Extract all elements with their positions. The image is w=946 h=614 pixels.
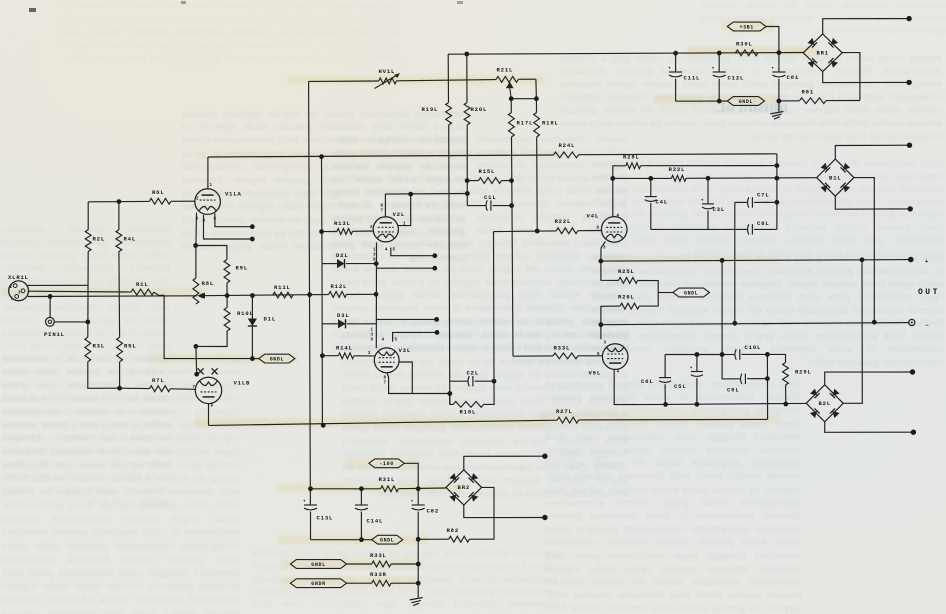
svg-text:R24L: R24L [559, 142, 576, 149]
wire GNDL stub mid [658, 292, 673, 294]
svg-text:V2L: V2L [393, 211, 405, 218]
resistor R26L [620, 303, 639, 309]
capacitor C11L [675, 53, 677, 72]
capacitor C5L [696, 355, 698, 372]
svg-text:+: + [771, 68, 774, 72]
svg-text:3: 3 [18, 292, 21, 296]
node cathode-R19L column [447, 391, 452, 396]
bridge rectifier B2L [806, 385, 843, 422]
terminal heater c1 [434, 317, 439, 322]
resistor R31L [381, 486, 399, 492]
diode D2L [337, 259, 345, 268]
wire R19L down long [449, 125, 450, 404]
node R24L-R32L [775, 176, 780, 181]
net label GNDL heater row [290, 560, 346, 569]
bridge rectifier BR1 [803, 34, 842, 72]
svg-text:GNDL: GNDL [270, 357, 284, 363]
svg-text:GNDR: GNDR [311, 581, 325, 587]
wire V4L grid line [494, 230, 557, 233]
capacitor C4L [650, 178, 652, 196]
resistor R18L bottom [450, 394, 453, 405]
svg-text:V4L: V4L [587, 213, 599, 220]
wire B2L column down [843, 260, 862, 404]
terminal B1L top [907, 143, 912, 148]
wire R9L-R10L [226, 283, 228, 296]
resistor R13L [322, 231, 337, 233]
wire V3L cathode line [387, 373, 450, 394]
terminal B1L bottom [908, 206, 913, 211]
node rail-C81 [777, 50, 782, 55]
svg-text:R18L: R18L [460, 409, 477, 416]
resistor R17L [510, 99, 512, 113]
svg-text:3: 3 [604, 342, 607, 346]
svg-text:V5L: V5L [589, 370, 601, 377]
terminal OUT plus [908, 257, 914, 263]
svg-text:C5L: C5L [674, 383, 686, 390]
wire BR2 bottom to terminal [464, 505, 545, 518]
svg-text:B2L: B2L [818, 400, 830, 407]
wire R8L down to V1LB pin [195, 346, 198, 374]
wire V4L cathode to plus line [601, 242, 605, 262]
node C5L bottom [695, 402, 700, 407]
wire R32L line [613, 177, 672, 179]
wire cap bottom line [666, 403, 807, 404]
wire V2L top pin to plate line [385, 194, 467, 218]
resistor R82 [449, 536, 470, 542]
svg-text:R4L: R4L [124, 236, 136, 243]
wire V1LA plate bus with R24L [208, 155, 554, 157]
svg-text:R26L: R26L [618, 294, 635, 301]
resistor R18L [535, 99, 537, 113]
svg-text:R33L: R33L [370, 552, 387, 559]
node minus-C7L [732, 321, 737, 326]
wire column to ground [417, 539, 419, 597]
diode D3L [338, 319, 346, 328]
svg-text:+: + [712, 68, 715, 72]
wire V5L bottom pin to cap line [614, 370, 665, 405]
terminal B2L top [910, 369, 915, 374]
wire HV column down [309, 81, 311, 505]
wire C7L left leg down to minus line [734, 202, 736, 323]
node R20L-R15L [465, 178, 470, 183]
svg-text:D2L: D2L [336, 252, 348, 259]
svg-text:V3L: V3L [399, 347, 411, 354]
wire GNDR to R33R [347, 582, 372, 584]
wire plate-bus column down [321, 157, 324, 264]
svg-text:BR1: BR1 [816, 50, 828, 57]
svg-text:PIN1L: PIN1L [44, 331, 65, 338]
wire R18L down to V4L grid line [536, 137, 539, 231]
wire HV1L line [309, 80, 379, 82]
capacitor C10L [722, 354, 734, 356]
wire V1LA cathode down [195, 213, 198, 246]
svg-text:C14L: C14L [367, 518, 384, 525]
svg-text:D1L: D1L [264, 316, 276, 323]
svg-text:C6L: C6L [641, 378, 653, 385]
svg-text:R32L: R32L [669, 166, 686, 173]
node R12L cathode bus [374, 292, 379, 297]
wire GNDL stub [252, 358, 258, 360]
wire C7L line [735, 201, 747, 203]
wire V1LA grid line [88, 200, 149, 202]
wire C9L branch [722, 355, 740, 379]
wire PIN1L drop [49, 296, 51, 317]
resistor R4L [118, 202, 120, 230]
terminal B2L bottom [911, 430, 916, 435]
svg-text:R17L: R17L [517, 120, 534, 127]
net label GNDL mid [673, 288, 710, 297]
wire R6L wiper bus [201, 295, 310, 296]
svg-text:R27L: R27L [556, 408, 573, 415]
capacitor C81 [778, 53, 780, 72]
capacitor C14L [360, 489, 362, 505]
wire BR2 top to terminal [464, 456, 545, 470]
svg-text:4: 4 [382, 339, 385, 343]
svg-text:R3L: R3L [93, 343, 105, 350]
node rail-R20L [464, 52, 469, 57]
node C82 bottom [416, 537, 421, 542]
capacitor C82 [417, 489, 419, 505]
svg-text:C12L: C12L [728, 75, 745, 82]
terminal BR1+ [906, 16, 911, 21]
node R33R column [416, 581, 421, 586]
node R24L-C7L [775, 200, 780, 205]
heater wire V2L pin5 [391, 248, 435, 256]
svg-text:2: 2 [368, 352, 371, 356]
node C2L right [492, 379, 497, 384]
node C3L top [706, 176, 711, 181]
capacitor C3L [707, 178, 709, 204]
wire R5L to R7L line [119, 362, 121, 388]
triode V1LA [195, 189, 221, 215]
node C9L right [765, 376, 770, 381]
node plate line branch [408, 192, 413, 197]
svg-text:R81: R81 [802, 89, 814, 96]
wire B2L top to terminal [825, 372, 913, 385]
wire D3L line [322, 323, 338, 325]
svg-text:R9L: R9L [236, 265, 248, 272]
resistor R27L [557, 417, 578, 423]
node HV column R12L line [307, 292, 312, 297]
wire column D2L-D3L [321, 264, 323, 426]
terminal OUT minus [909, 319, 915, 325]
svg-text:B1L: B1L [829, 174, 841, 181]
terminal heater a1 [250, 224, 255, 229]
svg-text:4: 4 [617, 215, 620, 219]
node R33L column [416, 562, 421, 567]
wire V1LB pin8 to bottom bus [208, 404, 210, 426]
svg-text:R5L: R5L [124, 343, 136, 350]
svg-text:XLR1L: XLR1L [8, 274, 29, 281]
svg-text:GNDL: GNDL [380, 538, 394, 544]
wire R20L down to C1L corner [466, 125, 468, 206]
wire BR1 top to terminal [823, 19, 909, 34]
capacitor C12L [718, 53, 720, 72]
svg-text:2: 2 [196, 198, 199, 202]
wire +3B1 to rail [766, 27, 779, 53]
connector XLR1L [9, 281, 29, 301]
node rail-C11L [673, 51, 678, 56]
svg-text:5: 5 [393, 249, 396, 253]
triode V3L [374, 348, 399, 373]
node pin1-PIN1L [48, 294, 53, 299]
svg-text:R20L: R20L [471, 106, 488, 113]
resistor R7L [150, 386, 171, 392]
svg-text:2: 2 [10, 286, 13, 290]
node plate bus HV column [319, 154, 324, 159]
wire branch to V2L pin1 [398, 194, 410, 226]
resistor R33R [372, 580, 391, 586]
svg-text:8: 8 [384, 377, 387, 381]
diode D1L [251, 296, 253, 319]
svg-text:+: + [690, 367, 693, 371]
wire B1L top to terminal [835, 145, 909, 159]
resistor R32L [671, 175, 686, 181]
svg-text:C11L: C11L [684, 75, 701, 82]
wire R28L left leg [613, 166, 626, 217]
node column-R13L [319, 229, 324, 234]
net label GNDL bottom mid [372, 535, 403, 544]
svg-text:C81: C81 [787, 74, 799, 81]
svg-text:C10L: C10L [745, 344, 762, 351]
svg-text:R13L: R13L [334, 220, 351, 227]
svg-text:C3L: C3L [713, 206, 725, 213]
node bottom bus D column [321, 423, 326, 428]
wire R4L bottom column [118, 252, 121, 338]
node R24L-R28L [775, 163, 780, 168]
resistor R6L [149, 198, 171, 204]
wire R21L right leg down [535, 79, 538, 99]
net label GNDR heater row [290, 579, 346, 588]
svg-text:R30L: R30L [736, 41, 753, 48]
svg-text:2: 2 [370, 226, 373, 230]
wire cap bottom gnd line [311, 539, 372, 541]
terminal heater c2 [435, 330, 440, 335]
heater wire V2L bundle [376, 267, 434, 269]
wire bottom bus up right leg [766, 354, 768, 419]
resistor R14L [322, 355, 338, 357]
node minus line start [599, 322, 604, 327]
svg-text:GNDL: GNDL [739, 99, 753, 105]
node V2L plate line end [465, 191, 470, 196]
svg-text:1: 1 [11, 298, 14, 302]
trimmer R8L [193, 278, 199, 304]
svg-text:C8L: C8L [757, 220, 769, 227]
wire R2L bottom column [87, 252, 89, 338]
svg-text:7: 7 [384, 382, 387, 386]
terminal heater b2 [432, 266, 437, 271]
resistor R30L [736, 50, 759, 56]
wire R3L to R7L line [88, 362, 120, 389]
svg-text:+: + [701, 199, 704, 203]
svg-text:R29L: R29L [795, 369, 812, 376]
triode V1LB [195, 377, 221, 403]
svg-text:4: 4 [617, 371, 620, 375]
node C4L top [648, 176, 653, 181]
svg-text:C7L: C7L [757, 192, 769, 199]
svg-text:+: + [925, 258, 929, 265]
node wiper-R18L [534, 96, 539, 101]
resistor R33L gnd [372, 561, 391, 567]
svg-text:V1LB: V1LB [234, 380, 251, 387]
node R18Lv bottom [535, 229, 540, 234]
node wiper-D1L [250, 293, 255, 298]
wire plus column down [721, 260, 723, 354]
svg-text:C2L: C2L [467, 370, 479, 377]
svg-text:R82: R82 [447, 527, 459, 534]
triode V4L [601, 217, 627, 243]
wire C11L-C12L ground line [676, 100, 728, 102]
net label GNDL top psu [727, 97, 764, 106]
node wiper-R9L [225, 293, 230, 298]
resistor R28L [626, 163, 641, 169]
svg-text:-100: -100 [379, 461, 393, 467]
node R28L-R32L branch [610, 176, 615, 181]
wire C13L leads [310, 512, 312, 540]
wire GNDL to R33L [347, 563, 372, 565]
svg-text:4: 4 [385, 249, 388, 253]
wire R21L wiper bus [511, 98, 536, 100]
connector PIN1L [46, 317, 55, 326]
svg-text:V1LA: V1LA [225, 191, 242, 198]
terminal heater b1 [432, 253, 437, 258]
svg-text:C9L: C9L [727, 387, 739, 394]
svg-text:3: 3 [373, 254, 376, 258]
node C5L top [695, 352, 700, 357]
speck c [457, 1, 463, 4]
x-mark unused pin a [198, 368, 204, 374]
svg-text:C4L: C4L [656, 199, 668, 206]
svg-text:R25L: R25L [618, 268, 635, 275]
node wiper-R17L [509, 96, 514, 101]
capacitor C8L [748, 224, 749, 234]
wire BR1 bottom to terminal [823, 72, 909, 83]
node PIN1L-R3L [85, 320, 90, 325]
wire -100 to column [404, 463, 418, 487]
speck b [181, 1, 186, 4]
wire V3L right pin down [399, 362, 412, 394]
node C10L line [720, 352, 725, 357]
ground symbol bottom [410, 598, 423, 600]
svg-text:1: 1 [373, 249, 376, 253]
capacitor C1L [467, 205, 485, 207]
svg-text:+: + [303, 501, 306, 505]
wire to R9L top [196, 246, 227, 260]
x-mark unused pin b [212, 368, 218, 374]
speck a [29, 8, 36, 12]
resistor R24L [554, 152, 579, 158]
net label -100 [369, 459, 405, 468]
wire plus line [601, 260, 909, 262]
bridge rectifier B1L [817, 159, 854, 196]
resistor R33L grid [553, 353, 578, 359]
node R8L-R10L [194, 344, 199, 349]
svg-text:+3B1: +3B1 [739, 24, 753, 30]
wire grid column down to C2L [493, 232, 496, 382]
svg-text:3: 3 [371, 334, 374, 338]
potentiometer R21L [496, 77, 518, 83]
wire V2L pin bundle down to V3L [375, 243, 377, 349]
node grid-R4L [117, 199, 122, 204]
svg-text:BR2: BR2 [458, 484, 470, 491]
node R14L line [320, 353, 325, 358]
wire XLR pin2 line [28, 284, 88, 286]
svg-text:6: 6 [381, 205, 384, 209]
heater wire V1LA pin8 [215, 214, 252, 227]
svg-text:R11L: R11L [274, 284, 291, 291]
terminal BR2 bottom [542, 515, 547, 520]
wire cathode bias column [601, 261, 619, 280]
heater wire V3L pin5 [393, 332, 437, 341]
resistor R3L [85, 337, 91, 362]
wire V5L grid line [513, 355, 553, 357]
svg-text:R18L: R18L [542, 120, 559, 127]
svg-text:GNDL: GNDL [311, 562, 325, 568]
node plus line start [599, 259, 604, 264]
svg-text:R7L: R7L [152, 377, 164, 384]
wire minus line [601, 323, 910, 325]
svg-text:GNDL: GNDL [684, 290, 698, 296]
wire R10L bottom to R8L bottom [196, 331, 227, 347]
node R15L-R17L [509, 178, 514, 183]
svg-text:R1L: R1L [136, 281, 148, 288]
svg-text:D3L: D3L [337, 312, 349, 319]
svg-text:7: 7 [381, 210, 384, 214]
wire V1LA pin1 up [207, 157, 209, 189]
capacitor C6L [664, 355, 666, 378]
ground symbol top psu [778, 101, 780, 112]
resistor R19L [447, 54, 449, 102]
resistor R15L [467, 180, 478, 182]
potentiometer HV1L [379, 78, 397, 84]
svg-text:7: 7 [193, 386, 196, 390]
wire bottom feedback bus with R27L [209, 420, 558, 425]
terminal BR1- [906, 80, 911, 85]
svg-text:C1L: C1L [484, 194, 496, 201]
svg-text:−: − [926, 322, 930, 329]
triode V5L [602, 344, 628, 370]
svg-text:R33L: R33L [554, 345, 571, 352]
capacitor C13L [304, 504, 317, 506]
wire XLR pin3 line with R1L [28, 290, 131, 293]
wire R31L line [311, 488, 381, 490]
resistor R81 [779, 100, 800, 102]
node -100 column [416, 486, 421, 491]
resistor R25L [619, 278, 638, 284]
node V1LB top pin [194, 372, 199, 377]
resistor R2L [87, 202, 89, 230]
resistor R29L [783, 363, 789, 386]
svg-text:R19L: R19L [422, 106, 439, 113]
svg-text:R14L: R14L [336, 345, 353, 352]
capacitor C2L [450, 380, 468, 382]
node R7L line [117, 386, 122, 391]
heater wire V1LA pin4 [204, 215, 253, 239]
node C1L-R17L [509, 203, 514, 208]
wire XLR pin1 line [28, 295, 197, 298]
wire D2L line [322, 263, 337, 265]
svg-text:R33R: R33R [370, 571, 387, 578]
svg-text:R10L: R10L [237, 310, 254, 317]
wire R24L right leg down [776, 154, 778, 230]
wire C6L top line [665, 354, 722, 356]
wire R1L down to GNDL line [164, 295, 252, 358]
wire top HT rail [448, 53, 803, 55]
node C6L bottom [663, 402, 668, 407]
svg-text:R22L: R22L [555, 218, 572, 225]
svg-text:9: 9 [371, 339, 374, 343]
capacitor C7L [748, 197, 749, 207]
